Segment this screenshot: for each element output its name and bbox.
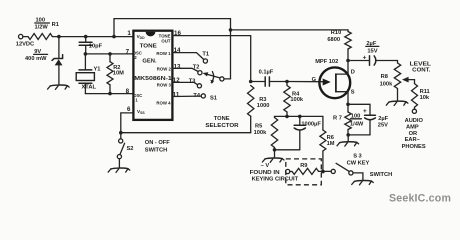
svg-text:ROW 4: ROW 4 [156,100,171,105]
svg-text:15V: 15V [367,48,377,54]
wire rail to R10 [231,29,349,31]
wire [23,36,28,38]
svg-text:KEYING CIRCUIT: KEYING CIRCUIT [252,177,299,183]
wire dashed box keying [286,159,322,185]
svg-text:10M: 10M [113,70,124,76]
svg-text:R9: R9 [300,163,307,169]
node T2 terminal [198,71,202,75]
diode D1 zener 9V 400mW [58,37,60,58]
transistor Q1 MPF102 JFET [319,61,350,105]
capacitor 1000uF [299,116,301,125]
wire pin6 VSS down [121,113,134,133]
svg-text:SELECTOR: SELECTOR [205,123,238,129]
svg-text:R5: R5 [255,124,262,130]
svg-text:1000µF: 1000µF [301,122,321,128]
svg-text:100k: 100k [290,97,303,103]
resistor R10 6800 [345,32,351,50]
wire bottom rail [121,132,251,134]
resistor R3 1000 [248,86,254,117]
svg-text:CW KEY: CW KEY [347,161,370,167]
resistor R4 100k [284,86,290,113]
switch S2 ON-OFF [120,133,122,139]
svg-text:400 mW: 400 mW [25,56,47,62]
svg-text:EAR–: EAR– [405,137,420,143]
svg-text:ON - OFF: ON - OFF [145,140,170,146]
node junction R5 bottom [273,148,277,152]
svg-text:OR: OR [409,131,418,137]
switch S3 CW key [336,163,349,171]
svg-text:CONT.: CONT. [412,67,431,73]
svg-text:OUT: OUT [161,38,170,43]
svg-text:FOUND IN: FOUND IN [250,170,280,176]
svg-text:ROW 3: ROW 3 [157,82,172,87]
node junction zener [57,35,61,39]
wire pin7 line [85,53,133,55]
svg-text:25V: 25V [378,122,388,128]
svg-text:– V: – V [261,163,270,169]
wire pin16 tone out [172,36,250,82]
node -V terminal [274,150,276,158]
op-amp U1 IC MK5086N-1 tone generator [133,31,173,120]
svg-text:1000: 1000 [257,103,270,109]
svg-text:MPF 102: MPF 102 [315,59,338,65]
svg-text:10k: 10k [420,95,430,101]
svg-text:10pF: 10pF [89,44,103,50]
svg-text:S1: S1 [210,95,217,101]
svg-text:MK5086N-1: MK5086N-1 [134,76,172,82]
svg-text:R1: R1 [52,22,59,28]
crystal Y1 XTAL [84,54,86,70]
svg-text:13: 13 [174,63,181,70]
wire R8 wiper [402,77,409,83]
svg-text:ROW 1: ROW 1 [156,51,171,56]
capacitor 10pF [85,37,87,42]
node T1 terminal [203,59,207,63]
resistor R1 100 1/2W [28,34,52,40]
wire S1 pole to rail [224,78,231,80]
node junction R4 bottom [285,115,289,119]
svg-text:6: 6 [127,106,131,113]
svg-text:SWITCH: SWITCH [370,172,392,178]
wire pin14 to T1 [172,53,203,60]
svg-text:7: 7 [126,48,130,55]
svg-text:1M: 1M [327,141,335,147]
resistor R5 100k [271,118,277,148]
svg-text:AUDIO: AUDIO [405,118,424,124]
node junction source [346,103,350,107]
svg-text:Y1: Y1 [94,67,101,73]
svg-text:G: G [312,77,317,83]
node junction 10pF [84,35,88,39]
ground [352,180,374,184]
svg-text:12VDC: 12VDC [16,41,34,47]
svg-text:100k: 100k [254,130,267,136]
node keying terminal left [286,169,290,173]
switch S1 selector arm [203,72,224,84]
ground [337,142,359,146]
svg-text:T4: T4 [193,93,200,99]
svg-text:SeekIC.com: SeekIC.com [389,192,451,204]
svg-text:T1: T1 [202,52,209,58]
svg-text:T3: T3 [189,79,196,85]
node junction R7 bottom [346,133,350,137]
node T3 terminal [197,84,201,88]
node junction VSS rail [119,131,123,135]
svg-text:+: + [363,108,367,115]
potentiometer R8 100k level control [394,63,400,89]
wire node line R5/R4/C/R6 [275,116,323,130]
wire pin11 to T4 [172,95,201,97]
node junction top rail [229,28,233,32]
capacitor 2uF 15V [348,60,369,62]
svg-text:D: D [351,70,355,76]
wire R5/C bottom [275,149,300,151]
capacitor 2uF 25V [348,104,370,115]
svg-text:AMP: AMP [406,125,419,131]
capacitor 0.1uF [251,81,265,83]
wire pin13 to T2 [172,68,198,71]
svg-text:R10: R10 [331,30,341,36]
svg-text:XTAL: XTAL [82,85,97,91]
node junction gate / R4 [285,80,289,84]
svg-text:TONE: TONE [140,44,157,50]
wire source bottom [348,134,370,136]
svg-text:0.1µF: 0.1µF [259,69,274,75]
svg-text:R8: R8 [381,74,388,80]
svg-text:S 3: S 3 [353,154,362,160]
node S3 left terminal [331,169,335,173]
svg-text:S: S [351,89,355,95]
node 12VDC input terminal [19,34,23,38]
node junction C1000 top [298,115,302,119]
svg-text:6800: 6800 [327,37,340,43]
resistor R9 [290,171,292,173]
wire rail to IC pin 1 [52,36,133,38]
svg-text:T2: T2 [193,64,200,70]
node junction xtal top [84,52,88,56]
node junction VDD riser [112,35,116,39]
svg-text:1/2W: 1/2W [35,24,49,30]
resistor R11 10k [412,84,418,108]
svg-text:+: + [363,55,367,62]
svg-text:TONE: TONE [214,116,230,122]
resistor R6 1M [320,130,326,151]
resistor R7 100 1/4W [345,112,351,130]
wire pin8 line [85,93,133,95]
node junction tone-out / R3 / cap [249,80,253,84]
node junction R6/R9 [319,170,332,172]
svg-text:R 7: R 7 [333,115,342,121]
resistor R2 10M [109,54,111,62]
wire pin12 to T3 [172,82,197,84]
wire VDD top rail [114,19,231,79]
svg-text:2µF: 2µF [378,116,388,122]
svg-text:11: 11 [173,91,180,98]
ground [48,85,70,89]
ground [108,168,130,172]
ground [386,101,408,105]
svg-text:SWITCH: SWITCH [145,148,167,154]
svg-text:1/4W: 1/4W [350,122,364,128]
node T4 terminal [201,94,205,98]
svg-text:PHONES: PHONES [402,144,426,150]
svg-text:100k: 100k [380,81,393,87]
svg-text:ROW 2: ROW 2 [157,66,172,71]
node junction R2 top [108,52,112,56]
wire gate [287,81,320,83]
svg-text:S2: S2 [127,146,134,152]
node junction drain [346,59,350,63]
svg-text:8: 8 [126,88,130,95]
node audio output terminal [412,109,416,113]
svg-text:1: 1 [127,30,131,37]
node junction R2 bottom [108,92,112,96]
svg-text:GEN.: GEN. [142,59,157,65]
